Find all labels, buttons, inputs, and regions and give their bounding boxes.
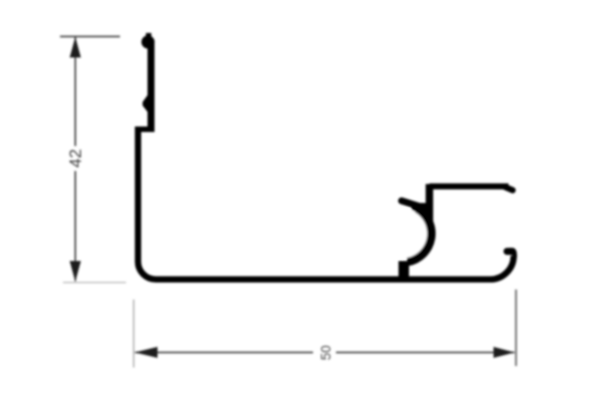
curl hook filler: [510, 248, 517, 258]
svg-text:50: 50: [319, 345, 334, 360]
dimension 42: up arrowhead: [70, 37, 81, 58]
dimension 42: dimension line lower segment: [74, 171, 76, 282]
dimension 42: dimension line upper segment: [74, 37, 76, 146]
dimension 50: dimension line right segment: [336, 351, 515, 353]
dimension 50: right extension line: [515, 290, 517, 367]
dimension 42: down arrowhead: [70, 261, 81, 282]
profile wall bump: [143, 95, 148, 113]
dimension 42: top extension line: [60, 36, 120, 38]
flange drooping tip: [506, 187, 513, 190]
dimension 50: right arrowhead: [494, 347, 515, 358]
dimension 50: left arrowhead: [135, 347, 158, 358]
profile lower left wall, bottom wall and right curl hook: [138, 127, 514, 280]
screw-port junction filler: [410, 203, 433, 220]
dimension 42: bottom extension line: [63, 282, 126, 284]
profile top ball knob: [141, 33, 154, 49]
svg-text:42: 42: [66, 149, 85, 168]
profile step jog: [135, 126, 155, 132]
dimension 50: dimension line left segment: [135, 351, 313, 353]
screw-port crescent wall: [407, 209, 431, 262]
screw-port foot tab: [399, 261, 410, 283]
profile upper left wall: [148, 40, 155, 130]
curl hook bar: [507, 248, 512, 255]
flange left wall: [426, 184, 434, 222]
screw-port upper jaw stub: [402, 201, 424, 208]
profile top flange: [429, 183, 508, 189]
screw-port inner white notch: [378, 209, 427, 258]
dimension 50: left extension line: [133, 300, 135, 368]
